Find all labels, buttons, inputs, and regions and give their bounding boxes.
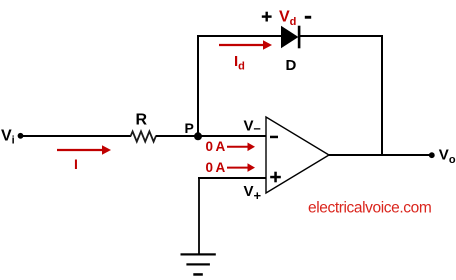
node Vi terminal dot [18,133,24,139]
svg-text:P: P [185,120,194,136]
current arrow 0A into non-inverting input [227,163,255,172]
current arrow 0A into inverting input [227,143,255,152]
op-amp plus sign [270,172,281,183]
wire top feedback left segment [197,35,282,37]
label + diode anode [262,12,272,22]
ground [181,253,216,275]
wire op-amp output [329,154,432,156]
svg-text:R: R [136,112,148,129]
current arrow Id [219,40,272,50]
wire resistor to node P [156,135,199,137]
wire down to ground [198,177,200,254]
wire node P to inverting input [198,135,266,137]
resistor R [131,131,156,141]
wire feedback down to output [381,35,383,156]
op-amp minus sign [270,136,278,139]
svg-text:I: I [74,156,78,172]
svg-text:D: D [286,57,297,74]
label - diode cathode [305,16,311,19]
current arrow I [57,145,111,155]
svg-text:0 A: 0 A [206,139,226,154]
wire diode to top right corner [300,35,383,37]
diode D [281,26,300,49]
node P junction dot [194,132,202,140]
wire node P up to feedback [197,35,199,136]
op-amp U1 [266,117,329,193]
wire Vi to resistor [22,135,131,137]
svg-text:electricalvoice.com: electricalvoice.com [308,199,431,216]
wire non-inverting input [198,177,266,179]
svg-text:V–: V– [244,118,261,136]
node Vo dot [429,152,435,158]
svg-text:0 A: 0 A [206,160,226,175]
